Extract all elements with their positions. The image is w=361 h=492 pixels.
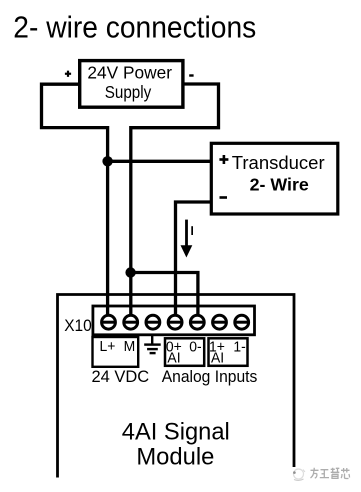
svg-text:0-: 0-: [189, 339, 202, 356]
AI 1 label box: [209, 338, 248, 366]
svg-text:Transducer: Transducer: [232, 152, 325, 173]
svg-text:AI: AI: [211, 350, 224, 367]
plus terminal label of supply: [65, 71, 71, 77]
wire: branch from node A to transducer +: [108, 160, 212, 163]
power supply U1 box: [80, 61, 183, 108]
ground symbol: [144, 335, 161, 354]
wire: supply - to terminal M: [131, 84, 219, 315]
wire: supply + to terminal L+: [42, 84, 108, 315]
transducer T1 box: [211, 143, 337, 214]
svg-text:Analog Inputs: Analog Inputs: [162, 367, 258, 386]
watermark text (stylized 4 glyphs): [311, 468, 350, 479]
svg-text:24 VDC: 24 VDC: [91, 367, 149, 386]
node B junction dot: [125, 267, 135, 277]
svg-text:Supply: Supply: [105, 83, 152, 102]
terminal screw 3 (ground): [146, 315, 160, 329]
wire: transducer - to terminal 0+: [176, 202, 212, 315]
transducer minus label: [220, 196, 228, 199]
svg-text:24V Power: 24V Power: [87, 63, 172, 83]
minus terminal label of supply: [189, 74, 193, 76]
terminal block X10: [93, 306, 255, 335]
4AI signal module box (open bottom): [58, 295, 295, 478]
transducer plus label: [219, 155, 228, 164]
svg-text:2- wire connections: 2- wire connections: [13, 10, 256, 45]
watermark logo: [293, 469, 305, 480]
svg-text:X10: X10: [64, 317, 92, 334]
svg-text:Module: Module: [136, 444, 214, 471]
current label I: [191, 226, 193, 235]
node A junction dot: [102, 156, 112, 166]
terminal screw 5 (0-): [190, 315, 204, 329]
svg-text:2- Wire: 2- Wire: [250, 175, 309, 195]
L+ M label box: [93, 337, 139, 367]
current arrow: [181, 220, 193, 258]
terminal screw 2 (M): [124, 315, 138, 329]
AI 0 label box: [165, 338, 204, 366]
terminal screw 6 (1+): [213, 315, 227, 329]
svg-text:4AI Signal: 4AI Signal: [122, 419, 230, 445]
svg-text:L+: L+: [99, 339, 115, 356]
svg-text:M: M: [124, 339, 136, 356]
terminal screw 7 (1-): [235, 315, 249, 329]
terminal screw 1 (L+): [102, 315, 116, 329]
terminal screw 4 (0+): [168, 315, 182, 329]
wire: branch from node B to terminal 0-: [131, 273, 198, 316]
svg-text:AI: AI: [167, 350, 180, 367]
svg-text:1-: 1-: [233, 339, 246, 356]
